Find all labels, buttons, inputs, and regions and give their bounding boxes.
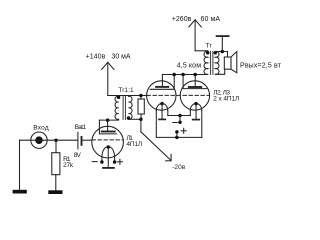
screen L1	[99, 120, 116, 134]
wire anode lead L3	[194, 75, 196, 88]
svg-text:2 х 4П1Л: 2 х 4П1Л	[213, 95, 239, 102]
triode-connected pentode L1	[92, 126, 124, 158]
screen L3	[183, 75, 207, 89]
chassis ground L3 filament	[195, 104, 197, 120]
anode L1	[102, 131, 115, 133]
plus terminal	[175, 136, 179, 140]
ground	[13, 190, 27, 194]
svg-text:Тг: Тг	[206, 42, 213, 49]
plus terminal L1	[117, 161, 122, 163]
anode L2	[156, 86, 168, 88]
node screen L3 junction	[181, 73, 185, 77]
wire bias	[129, 118, 141, 120]
transformer Tr core	[210, 51, 212, 74]
svg-text:+260в: +260в	[172, 16, 192, 23]
node polarity dot primary	[117, 95, 121, 99]
chassis ground L2 filament	[161, 104, 163, 119]
wire	[19, 140, 21, 190]
wire anode lead L2	[162, 75, 207, 87]
svg-text:30 мА: 30 мА	[112, 54, 131, 61]
svg-text:27k: 27k	[63, 162, 74, 169]
node resistor bottom junction	[139, 118, 143, 122]
transformer Tr1:1 core	[122, 96, 124, 120]
wire secondary top	[215, 52, 227, 58]
filament L1	[102, 147, 115, 157]
wire	[82, 139, 91, 141]
node anode L3 junction	[193, 73, 197, 77]
filament L3	[190, 104, 202, 111]
node polarity dot output secondary	[214, 51, 218, 55]
node anode junction	[106, 118, 110, 122]
svg-text:Вход: Вход	[33, 124, 49, 131]
filament L2	[156, 104, 168, 111]
node grid junction	[54, 138, 58, 142]
wire grid bus	[108, 95, 147, 97]
minus terminal	[179, 116, 181, 123]
node resistor top junction	[139, 94, 143, 98]
arrowhead -20V	[170, 154, 172, 160]
svg-text:60 мА: 60 мА	[201, 16, 221, 23]
ground	[48, 190, 62, 194]
transformer Tr secondary	[215, 51, 219, 74]
transformer Tr output primary	[204, 51, 208, 74]
output pentode L3	[180, 81, 209, 110]
chassis ground L1 filament	[107, 148, 109, 168]
wire to -20V	[140, 119, 142, 132]
minus terminal L1	[92, 161, 97, 163]
wire	[20, 139, 78, 141]
node minus bus junction	[178, 114, 182, 118]
node screen L2 junction	[172, 73, 176, 77]
svg-text:+140в: +140в	[86, 54, 106, 61]
resistor R1	[52, 153, 60, 175]
wire anode lead	[107, 120, 109, 131]
wire filament minus bus	[168, 115, 191, 117]
resistor grid bias feed	[138, 99, 144, 114]
svg-text:8V: 8V	[74, 152, 82, 159]
chassis ground speaker	[221, 36, 223, 51]
wire	[55, 175, 57, 191]
speaker	[224, 57, 231, 69]
svg-text:4,5 ком: 4,5 ком	[177, 63, 201, 70]
svg-text:Tr1:1: Tr1:1	[118, 87, 134, 94]
input jack J1	[31, 132, 47, 148]
transformer Tr1:1 primary	[115, 96, 119, 119]
node speaker top junction	[221, 50, 225, 54]
screen L2	[150, 75, 174, 90]
wire	[99, 118, 118, 121]
transformer Tr1:1 secondary	[129, 96, 133, 119]
wire	[195, 50, 208, 52]
supply arrow +260V	[194, 20, 196, 51]
battery Bat1	[77, 132, 79, 149]
wire secondary bottom	[215, 69, 224, 74]
anode L3	[189, 86, 201, 88]
node polarity dot output primary	[206, 51, 210, 55]
svg-text:-20в: -20в	[172, 164, 186, 171]
node polarity dot secondary	[127, 116, 131, 120]
output pentode L2	[147, 81, 176, 110]
grid L1	[92, 139, 123, 141]
svg-text:Рвых=2,5 вт: Рвых=2,5 вт	[240, 62, 282, 69]
svg-text:Bat1: Bat1	[75, 124, 87, 131]
wire filament bottom bus	[156, 136, 202, 138]
grids L2 L3	[147, 94, 209, 96]
svg-text:4П1Л: 4П1Л	[126, 141, 142, 148]
wire	[55, 140, 57, 153]
supply arrow +140V	[107, 62, 109, 95]
